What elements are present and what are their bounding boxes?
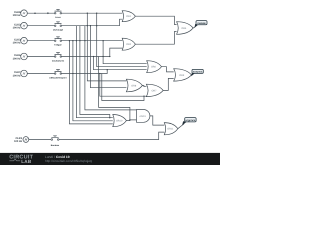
svg-text:http://circuitlab.com/c85kvbqh: http://circuitlab.com/c85kvbqhqjwg	[45, 159, 92, 163]
label suspect	[193, 71, 203, 74]
wire bus x98.6 row4 elbow y107.4	[99, 57, 130, 120]
svg-text:DifficulteRespirer: DifficulteRespirer	[49, 77, 67, 80]
and-gate AND1	[137, 110, 150, 123]
wire row1 source to switch	[27, 12, 54, 14]
wire OR6 output to OR9 top input	[162, 67, 174, 72]
svg-text:OR9: OR9	[179, 74, 185, 77]
wire bus x101.8 row5 elbow y100.5	[102, 74, 144, 101]
or-gate OR8	[126, 79, 142, 92]
switch SW3	[54, 37, 61, 42]
junction node (96.7,25.7)	[96, 25, 97, 26]
svg-text:100 Hz: 100 Hz	[13, 57, 22, 60]
wire OR11 output to flag3	[178, 124, 184, 129]
switch SW1	[54, 9, 61, 14]
junction node (72.9,73.5)	[72, 73, 73, 74]
label OR8	[131, 84, 137, 87]
svg-text:100 Hz: 100 Hz	[13, 42, 22, 45]
wire bus x69.4 row3 to OR10 input3	[69, 41, 112, 124]
svg-text:Fatigue: Fatigue	[54, 44, 62, 47]
label OR10	[116, 120, 123, 123]
wire row2 to OR1 bottom input	[62, 19, 123, 26]
svg-text:100 Hz: 100 Hz	[13, 14, 22, 17]
junction node (103.1,40.7)	[102, 40, 103, 41]
wire OR2 output to OR5 bottom input	[135, 32, 176, 45]
label CLK6 100 Hz	[13, 54, 22, 60]
svg-text:AND1: AND1	[139, 115, 146, 118]
svg-text:100 Hz: 100 Hz	[13, 74, 22, 77]
junction node (87.3,25.7)	[87, 25, 88, 26]
label CLK7 100 Hz	[13, 71, 22, 77]
voltage source CLK2	[21, 22, 28, 29]
svg-text:OR7: OR7	[152, 89, 158, 92]
label CLK3 100 Hz	[13, 38, 22, 44]
label malade	[197, 22, 206, 25]
wire row3 source to switch	[27, 40, 54, 42]
label Boutons	[51, 144, 60, 147]
voltage source CLK8	[21, 10, 28, 17]
label DifficulteRespirer	[49, 77, 67, 80]
wire bus x72.9 row3 to OR10 input2	[73, 41, 113, 121]
wire row4 source to switch	[27, 56, 54, 58]
logo CIRCUIT LAB	[9, 155, 33, 164]
wire arrow row1	[47, 12, 50, 14]
svg-text:OR6: OR6	[151, 66, 157, 69]
wire row2 source to switch	[27, 25, 54, 27]
label Fever	[55, 16, 61, 19]
wire bus x90.4 row2 to OR8 bottom input	[90, 26, 126, 88]
svg-text:Courbatures: Courbatures	[52, 60, 65, 63]
label AND1	[139, 115, 146, 118]
arrow flag1	[195, 24, 199, 28]
junction node (129.9,119.9)	[129, 119, 130, 120]
wire OR5 output to flag1	[193, 27, 195, 29]
wire bus x103.1 row3 to OR6 top input	[103, 41, 147, 64]
svg-text:suspect: suspect	[193, 71, 203, 74]
arrow flag2	[191, 73, 195, 77]
wire bus x93.5 row4 to OR6 bottom input	[94, 57, 147, 70]
wire bus x76.4 row2 to OR10 input1	[76, 26, 112, 118]
label OR11	[167, 128, 174, 131]
label DryCough	[53, 29, 64, 32]
junction node (109.8,56.5)	[109, 56, 110, 57]
label CLK8 100 Hz	[13, 11, 22, 17]
junction node (93.5,56.5)	[93, 56, 94, 57]
wire OR1 output to OR5 top input	[135, 16, 176, 24]
junction node (96.7,13.2)	[96, 13, 97, 14]
label OR5	[181, 27, 187, 30]
output flag urgence	[185, 118, 196, 122]
junction node (79.9,40.7)	[79, 40, 80, 41]
voltage source CLK6	[21, 53, 28, 60]
or-gate OR10	[113, 115, 127, 127]
junction node (69.4,40.7)	[69, 40, 70, 41]
label Courbatures	[52, 60, 65, 63]
svg-text:OR10: OR10	[116, 120, 123, 123]
svg-text:OR11: OR11	[167, 128, 174, 131]
footer title Lundi / Covid 19	[45, 155, 92, 163]
or-gate OR9	[174, 69, 192, 81]
wire OR10 output to AND1 bottom input	[126, 119, 136, 122]
wire OR7 output to OR9 bottom input	[163, 78, 174, 90]
switch SW6	[51, 136, 59, 141]
footer bar	[0, 153, 220, 165]
output flag suspect	[192, 69, 203, 73]
or-gate OR6	[147, 61, 162, 73]
wire bus x84.9 row2 to AND1 top input	[85, 26, 137, 110]
output flag malade	[196, 21, 207, 25]
arrow flag3	[182, 121, 186, 125]
svg-text:OR5: OR5	[181, 27, 187, 30]
wire OR8 output to OR7 top input	[142, 86, 146, 87]
label OR7	[152, 89, 158, 92]
switch SW4	[54, 53, 61, 58]
voltage source CLK3	[21, 37, 28, 44]
or-gate OR5	[177, 22, 194, 35]
or-gate OR7	[146, 84, 163, 96]
wire row1 to OR1 top input	[62, 12, 123, 14]
junction node (87.3,13.2)	[87, 13, 88, 14]
svg-text:Fever: Fever	[55, 16, 61, 19]
junction node (90.4,25.7)	[90, 25, 91, 26]
or-gate OR2	[122, 38, 135, 50]
label OR6	[151, 66, 157, 69]
label OR1	[126, 15, 132, 18]
wire row6 to OR11 bottom input	[59, 132, 164, 139]
svg-text:DryCough: DryCough	[53, 29, 64, 32]
switch SW5	[54, 70, 61, 75]
junction node (107.2,69.7)	[107, 69, 108, 70]
svg-text:OR1: OR1	[126, 15, 132, 18]
wire row6 source to switch	[29, 139, 51, 141]
wire AND1 output to OR11 top input	[150, 116, 164, 125]
label OR2	[126, 43, 132, 46]
junction node (103.1,56.5)	[102, 56, 103, 57]
label urgence	[186, 119, 196, 122]
junction node (99.8,73.5)	[99, 73, 100, 74]
junction node (109.8,117.7)	[109, 117, 110, 118]
wire row3 to OR2 top input	[62, 40, 123, 42]
wire bus x99.8 row5 to OR7 bottom input	[100, 74, 148, 97]
junction node (76.4,40.7)	[76, 40, 77, 41]
wire bus x87.3 row1 to OR8 top input	[87, 13, 126, 81]
or-gate OR11	[164, 123, 178, 135]
junction node (144,96.2)	[143, 96, 144, 97]
svg-text:malade: malade	[197, 22, 206, 25]
svg-text:OR2: OR2	[126, 43, 132, 46]
svg-text:100 Hz: 100 Hz	[13, 27, 22, 30]
label Fatigue	[54, 44, 62, 47]
wire bus x96.7 row1 to OR6 mid input	[97, 13, 147, 66]
svg-text:Boutons: Boutons	[51, 144, 60, 147]
svg-text:100 Hz: 100 Hz	[14, 140, 23, 143]
wire row5 bus stub	[62, 70, 108, 74]
voltage source CLK7	[21, 70, 28, 77]
or-gate OR1	[122, 11, 135, 22]
node row1 junction	[34, 12, 36, 14]
voltage source CLK9	[23, 137, 29, 143]
wire OR9 output to flag2	[192, 73, 194, 75]
svg-text:OR8: OR8	[131, 84, 137, 87]
svg-text:urgence: urgence	[186, 119, 196, 122]
junction node (72.9,40.7)	[72, 40, 73, 41]
wire bus x79.9 row2 staircase y114.5	[80, 26, 110, 118]
label CLK9 100 Hz	[14, 137, 23, 143]
svg-text:LAB: LAB	[21, 159, 32, 164]
junction node (84.9,40.7)	[84, 40, 85, 41]
switch SW2	[54, 22, 61, 27]
label CLK2 100 Hz	[13, 23, 22, 29]
wire row5 source to switch	[27, 73, 54, 75]
wire row4 to OR2 bottom input	[62, 48, 123, 56]
label OR9	[179, 74, 185, 77]
